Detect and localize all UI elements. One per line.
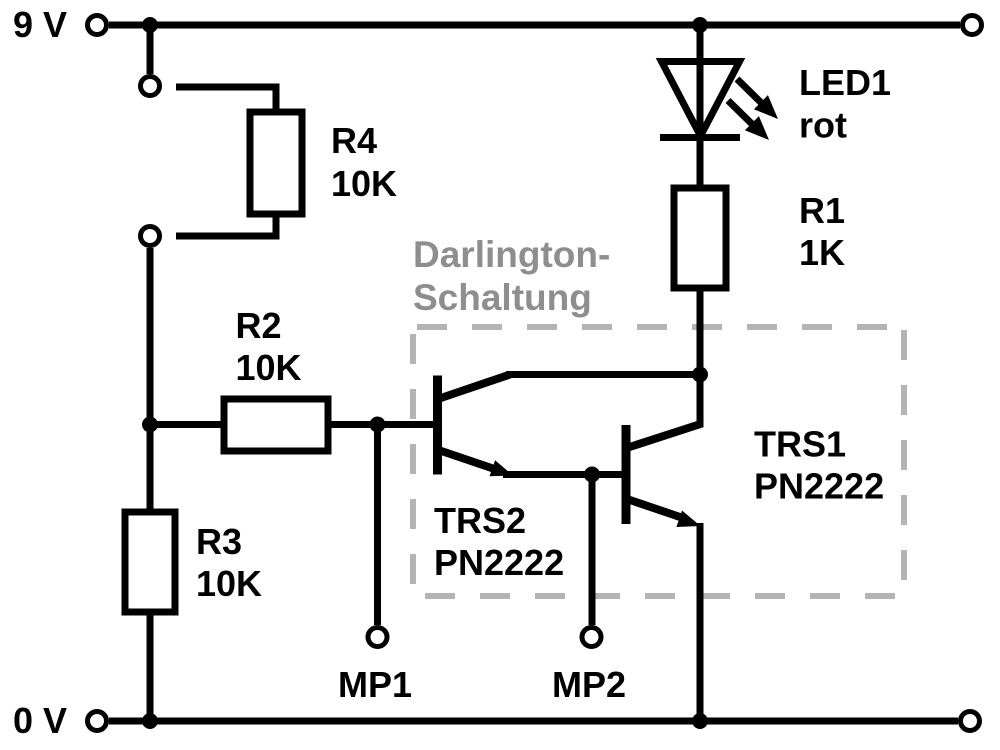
wire bottom rail [109, 718, 958, 725]
transistor TRS2 [435, 375, 513, 477]
svg-text:R3: R3 [196, 521, 242, 562]
wire TRS1 emitter to 0V rail [697, 523, 704, 721]
resistor R3 [125, 512, 175, 612]
junction bottom rail / TRS1 emitter [692, 713, 708, 729]
label Darlington-Schaltung [413, 234, 610, 318]
label R3 10K [196, 521, 262, 604]
wire LED1-R1 vertical lead [697, 25, 704, 188]
terminal MP1 [368, 628, 387, 647]
svg-text:Schaltung: Schaltung [413, 277, 592, 318]
wire top rail [109, 22, 960, 29]
wire R1 to collector node [697, 288, 704, 424]
wire R4 lower lead [176, 214, 276, 236]
junction top rail / LED branch [692, 17, 708, 33]
wire R4 upper lead [176, 87, 276, 112]
svg-text:PN2222: PN2222 [434, 542, 564, 583]
svg-text:10K: 10K [331, 163, 397, 204]
wire stub rail to R4 top terminal [147, 25, 154, 74]
transistor TRS1 [624, 424, 701, 527]
svg-text:1K: 1K [799, 232, 845, 273]
terminal 0V right [961, 712, 980, 731]
svg-text:MP2: MP2 [552, 664, 626, 705]
svg-text:R4: R4 [331, 120, 377, 161]
terminal 0V left [88, 712, 107, 731]
junction top rail / R4 branch [142, 17, 158, 33]
svg-text:LED1: LED1 [799, 62, 891, 103]
terminal R4 top [141, 77, 160, 96]
resistor R1 [674, 188, 726, 288]
label R1 1K [799, 190, 845, 273]
svg-text:Darlington-: Darlington- [413, 234, 610, 275]
label TRS2 PN2222 [434, 500, 564, 583]
LED1 light arrow 2 [728, 101, 769, 141]
svg-text:TRS1: TRS1 [754, 424, 846, 465]
junction bottom rail / R3 [142, 713, 158, 729]
label LED1 rot [799, 62, 891, 146]
svg-text:R1: R1 [799, 190, 845, 231]
svg-text:9 V: 9 V [13, 4, 67, 45]
label R4 10K [331, 120, 397, 204]
svg-text:10K: 10K [196, 563, 262, 604]
wire R2 to TRS2 base [328, 421, 433, 428]
junction MP1 node [370, 417, 386, 433]
label R2 10K [236, 305, 302, 388]
wire TRS2 collector to node [506, 371, 700, 378]
LED LED1 [660, 62, 740, 138]
wire left branch to R2 [150, 421, 224, 428]
svg-text:10K: 10K [236, 347, 302, 388]
svg-text:PN2222: PN2222 [754, 466, 884, 507]
terminal 9V left [88, 16, 107, 35]
svg-text:TRS2: TRS2 [434, 500, 526, 541]
junction left branch / R2 [142, 417, 158, 433]
resistor R4 [250, 112, 302, 214]
svg-text:MP1: MP1 [338, 664, 412, 705]
svg-text:0 V: 0 V [13, 700, 67, 741]
Darlington dashed box [413, 327, 904, 596]
wire left branch vertical (R4 bottom to 0V through R3) [147, 248, 154, 721]
wire TRS2 emitter to TRS1 base [503, 471, 622, 478]
terminal 9V right [963, 16, 982, 35]
terminal R4 bottom [141, 227, 160, 246]
wire TRS1 collector vertical [697, 375, 704, 428]
junction collector node (R1 / TRS2 collector / TRS1 collector) [692, 367, 708, 383]
wire MP1 [374, 425, 381, 626]
svg-text:R2: R2 [236, 305, 282, 346]
LED1 light arrow 1 [737, 79, 778, 119]
wire MP2 [589, 475, 596, 626]
terminal MP2 [582, 628, 601, 647]
junction MP2 node [584, 467, 600, 483]
label TRS1 PN2222 [754, 424, 884, 507]
svg-text:rot: rot [799, 105, 847, 146]
resistor R2 [224, 399, 328, 451]
